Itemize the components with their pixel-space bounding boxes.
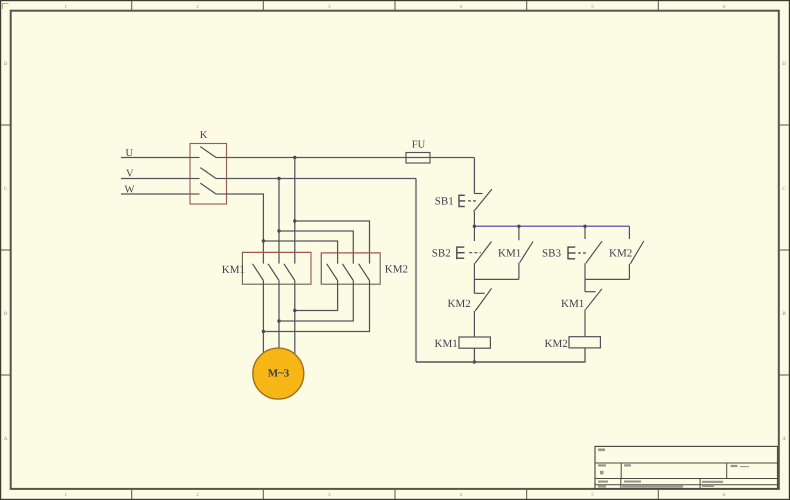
svg-text:W: W (125, 184, 135, 195)
wire bottom rail (416, 361, 586, 363)
svg-text:FU: FU (412, 139, 426, 150)
junction swap C (262, 330, 265, 333)
svg-text:D: D (4, 61, 8, 67)
zone dividers right (780, 125, 789, 375)
SB3 actuator (568, 246, 587, 259)
wire SB3 KM2aux join (585, 278, 629, 280)
junction swap A (293, 309, 296, 312)
svg-text:B: B (4, 311, 8, 317)
wire swap KM2 pole3 (263, 284, 369, 331)
SB2 actuator (457, 246, 481, 259)
svg-text:2: 2 (196, 4, 199, 10)
wire W branch to KM2 pole1 (263, 241, 337, 264)
coil KM1 (459, 337, 490, 348)
wire KM1 pole1 output (262, 284, 264, 356)
corner trim mark (3, 4, 9, 10)
knife switch K box (190, 144, 227, 205)
wire V branch to KM2 pole2 (279, 231, 353, 264)
TITLE BLOCK (595, 446, 778, 488)
wire V drop to KM1 pole2 (278, 179, 280, 264)
junction rail SB2 (473, 225, 476, 228)
svg-text:D: D (782, 61, 786, 67)
KM1 pole 2 contact (268, 264, 279, 284)
contact KM1 aux (NO) (519, 226, 533, 279)
svg-text:KM1: KM1 (222, 264, 245, 276)
wire to KM1 NC (584, 279, 586, 291)
fuse FU (406, 153, 430, 164)
junction V branch (277, 229, 280, 232)
KM1 pole 1 contact (253, 264, 264, 284)
junction swap B (277, 319, 280, 322)
switch K pole 3 (190, 183, 227, 194)
svg-text:4: 4 (460, 4, 463, 10)
KM1 pole 3 contact (284, 264, 295, 284)
KM2 pole 1 contact (327, 264, 338, 284)
wire W phase in (121, 193, 190, 195)
wire KM1 pole2 output (278, 284, 280, 356)
KM2 pole 3 contact (359, 264, 370, 284)
wire rail corner to KM2 aux (628, 226, 630, 239)
svg-text:V: V (126, 168, 134, 179)
svg-text:SB1: SB1 (435, 196, 454, 208)
svg-text:C: C (4, 186, 8, 192)
switch K pole 1 (190, 147, 227, 158)
title block tiny text marks (598, 449, 749, 488)
pushbutton SB2 (NO) (474, 226, 491, 279)
svg-text:SB2: SB2 (432, 248, 451, 260)
wire V phase in (121, 178, 190, 180)
contact KM1 NC (585, 289, 602, 337)
svg-text:KM1: KM1 (561, 298, 584, 310)
junction U branch (293, 219, 296, 222)
contact KM2 aux (NO) (629, 241, 643, 279)
svg-text:4: 4 (460, 492, 463, 498)
svg-text:KM1: KM1 (435, 338, 458, 350)
svg-text:6: 6 (723, 4, 726, 10)
svg-text:U: U (126, 148, 134, 159)
contactor KM2 main box (321, 253, 380, 284)
zone dividers bottom (132, 490, 659, 499)
KM2 pole 2 contact (342, 264, 353, 284)
junction rail SB3 (583, 225, 586, 228)
junction W branch (262, 239, 265, 242)
wire V return (415, 179, 417, 363)
svg-text:3: 3 (328, 492, 331, 498)
svg-text:KM2: KM2 (609, 248, 632, 260)
wire swap KM2 pole2 (279, 284, 353, 321)
wire U branch to KM2 pole3 (295, 221, 370, 264)
wire coil KM1 to rail (473, 348, 475, 362)
svg-text:KM2: KM2 (385, 263, 408, 275)
SB1 actuator (459, 195, 477, 208)
svg-text:6: 6 (723, 492, 726, 498)
junction rail KM1 aux (517, 225, 520, 228)
svg-text:SB3: SB3 (542, 248, 561, 260)
svg-text:A: A (4, 436, 8, 442)
svg-text:K: K (200, 130, 208, 141)
contactor KM1 main box (242, 252, 311, 284)
wire SB2 KM1aux join (474, 278, 519, 280)
svg-text:C: C (782, 186, 786, 192)
svg-text:KM2: KM2 (448, 298, 471, 310)
svg-text:M~3: M~3 (268, 368, 290, 380)
svg-text:1: 1 (65, 492, 68, 498)
svg-text:1: 1 (65, 4, 68, 10)
wire U phase K to control drop (227, 157, 475, 159)
svg-text:2: 2 (196, 492, 199, 498)
svg-text:B: B (782, 311, 786, 317)
wire swap KM2 pole1 (295, 284, 338, 310)
switch K pole 2 (190, 168, 227, 179)
pushbutton SB1 (NC) (474, 189, 492, 226)
svg-text:3: 3 (328, 4, 331, 10)
wire U drop to KM1 pole3 (294, 158, 296, 264)
zone dividers top (132, 1, 659, 10)
contact KM2 NC (474, 288, 491, 337)
svg-text:5: 5 (591, 4, 594, 10)
wire U phase in (121, 157, 190, 159)
motor M~3 (253, 348, 304, 399)
wire V phase K to return drop (227, 178, 417, 180)
junction V drop (277, 177, 280, 180)
wire coil KM2 to rail (584, 348, 586, 362)
coil KM2 (569, 337, 600, 348)
control rail (474, 225, 629, 227)
svg-text:KM2: KM2 (545, 338, 568, 350)
zone dividers left (1, 125, 10, 375)
junction bottom rail (473, 360, 476, 363)
svg-text:KM1: KM1 (498, 248, 521, 260)
svg-text:5: 5 (591, 492, 594, 498)
junction U drop (293, 156, 296, 159)
pushbutton SB3 (NO) (585, 226, 602, 279)
wire control feed drop (473, 158, 475, 194)
wire KM1 pole3 output (294, 284, 296, 356)
wire to KM2 NC (473, 279, 475, 293)
svg-text:A: A (782, 436, 786, 442)
wire W phase K to drop (227, 194, 264, 264)
